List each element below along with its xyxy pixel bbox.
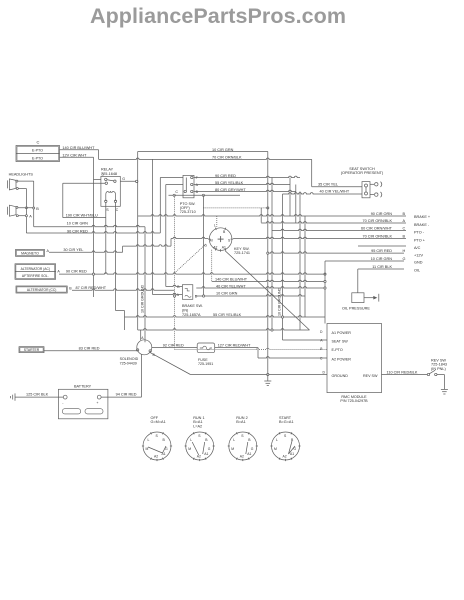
labels right column <box>414 215 431 273</box>
label RELAY 725-1648 <box>101 168 117 177</box>
svg-text:MAGNETO: MAGNETO <box>21 252 39 256</box>
svg-text:35 CIR YEL: 35 CIR YEL <box>318 183 338 187</box>
label 140 CIR BLU/WHT (brake) <box>215 277 248 281</box>
wire fuse to module A2 <box>215 348 327 358</box>
wire row4 label PTO+ <box>362 234 405 238</box>
svg-text:(OPERATOR PRESENT): (OPERATOR PRESENT) <box>341 171 384 175</box>
svg-text:BRAKE -: BRAKE - <box>414 223 430 227</box>
svg-text:87 CIR RED/WHT: 87 CIR RED/WHT <box>76 286 107 290</box>
svg-text:90 CIR RED: 90 CIR RED <box>66 270 87 274</box>
svg-text:110 CIR RED/BLK: 110 CIR RED/BLK <box>387 370 418 374</box>
wire pto F right <box>194 176 300 177</box>
wire 12V CIR WHT <box>60 157 101 297</box>
svg-text:94 CIR RED: 94 CIR RED <box>116 392 137 396</box>
headlight lamp 1 <box>8 179 19 190</box>
svg-text:M: M <box>231 447 234 451</box>
label 55 CIR YEL/BLK <box>215 181 244 185</box>
label 10 CIR GROUND rot <box>141 284 145 313</box>
pto switch 725-3710 <box>175 175 198 197</box>
label 35 CIR YEL <box>318 183 338 187</box>
wire battery pos <box>101 354 141 397</box>
wire key row <box>203 207 269 209</box>
wire row8 OIL 11 CIR BLK <box>358 265 404 269</box>
svg-text:10 CIR GRN: 10 CIR GRN <box>216 292 238 296</box>
wire vert 174 E-PTO <box>174 195 176 349</box>
svg-text:70 CIR ORN/BLK: 70 CIR ORN/BLK <box>362 234 392 238</box>
svg-text:A2: A2 <box>154 455 158 459</box>
svg-text:A1: A1 <box>290 452 294 456</box>
rmc module box <box>320 324 381 393</box>
wire vert 152 <box>152 159 154 294</box>
ignition position RUN 2 <box>228 416 258 461</box>
svg-text:11 CIR BLK: 11 CIR BLK <box>372 265 392 269</box>
wire headlight loop 190 CIR WHT/BLU <box>63 183 106 217</box>
svg-text:83 CIR RED: 83 CIR RED <box>79 346 100 350</box>
wire 90 CIR RED <box>26 232 160 233</box>
svg-text:725-1741: 725-1741 <box>234 251 250 255</box>
wire bus 70 CIR ORN/BLK <box>99 158 312 159</box>
wire key B right (row4) <box>233 237 406 238</box>
svg-text:M: M <box>146 447 149 451</box>
svg-text:140 CIR BLU/WHT: 140 CIR BLU/WHT <box>215 277 248 281</box>
ignition position OFF <box>142 416 172 461</box>
svg-text:P/N 725-04297B: P/N 725-04297B <box>340 399 368 403</box>
label 92 CIR RED <box>163 343 184 347</box>
label 90 CIR RED <box>67 229 88 233</box>
svg-text:HEADLIGHTS: HEADLIGHTS <box>9 172 34 176</box>
svg-text:PTO -: PTO - <box>414 231 425 235</box>
svg-text:L: L <box>214 223 216 227</box>
svg-text:G: G <box>122 177 125 181</box>
svg-text:E-PTO: E-PTO <box>332 348 343 352</box>
wire vert 203 <box>202 195 204 295</box>
connector C (E-PTO plug) <box>16 140 60 162</box>
svg-text:70 CIR ORN/BLK: 70 CIR ORN/BLK <box>212 156 242 160</box>
wire 140 row <box>212 280 326 283</box>
wire key G diagonal <box>175 244 207 273</box>
battery box <box>58 384 108 419</box>
wire vert 325 <box>324 261 326 324</box>
label 140 CIR BLU/WHT <box>62 146 95 150</box>
wire solenoid diag to ground rail <box>150 353 190 375</box>
alternator box <box>15 264 60 280</box>
svg-text:ALTERNATOR (CC): ALTERNATOR (CC) <box>27 288 57 292</box>
wire 40 CIR YEL/WHT <box>283 193 363 194</box>
svg-text:AFTERFIRE SOL.: AFTERFIRE SOL. <box>22 274 49 278</box>
wire row1 BRAKE+ 90 CIR ORN <box>138 212 406 216</box>
svg-text:127 CIR RED/WHT: 127 CIR RED/WHT <box>218 343 251 347</box>
wire 87 CIR RED/WHT <box>72 289 175 290</box>
wire vert 160 <box>159 178 161 234</box>
svg-text:A/C: A/C <box>414 246 421 250</box>
wire 10 row <box>173 295 305 298</box>
solenoid 725-04439 <box>136 336 155 357</box>
svg-text:SEAT SW: SEAT SW <box>332 340 349 344</box>
svg-text:95 CIR RED: 95 CIR RED <box>371 249 392 253</box>
svg-text:OIL PRESSURE: OIL PRESSURE <box>342 306 370 310</box>
svg-text:B=G=A1: B=G=A1 <box>279 420 294 424</box>
wire row5 A/C <box>358 245 406 247</box>
label 190 CIR WHT/BLU <box>66 213 98 217</box>
starter box <box>19 347 44 353</box>
label PTO SW. <box>180 202 196 214</box>
wire 40 row <box>196 287 326 290</box>
svg-text:A2: A2 <box>213 246 217 250</box>
svg-text:G: G <box>208 447 211 451</box>
wire key L up <box>216 216 218 227</box>
alternator cc box <box>16 286 72 293</box>
svg-text:A1: A1 <box>247 452 251 456</box>
svg-text:E-PTO: E-PTO <box>32 156 43 160</box>
wire vert 145 ground <box>144 227 146 343</box>
ground (battery) <box>10 393 15 400</box>
svg-text:GND: GND <box>414 261 423 265</box>
svg-text:BATTERY: BATTERY <box>74 384 92 388</box>
wire row6 +12V 95 CIR RED <box>267 249 406 254</box>
svg-text:L: L <box>148 438 150 442</box>
wire module to rev sw <box>382 374 428 376</box>
wire battery neg <box>15 396 63 398</box>
svg-text:L=A2: L=A2 <box>193 424 202 428</box>
svg-text:30 CIR YEL: 30 CIR YEL <box>63 248 83 252</box>
svg-text:RELAY: RELAY <box>101 168 114 172</box>
svg-text:A2: A2 <box>283 455 287 459</box>
label 80 CIR GRY/WHT <box>215 188 246 192</box>
wire 30 CIR YEL <box>49 237 208 252</box>
svg-text:725-1951: 725-1951 <box>198 362 213 366</box>
label HEADLIGHTS <box>9 172 34 176</box>
brake switch <box>177 285 198 300</box>
label 90 CIR RED (pto) <box>215 174 236 178</box>
svg-text:BRAKE SW.: BRAKE SW. <box>182 304 203 308</box>
svg-text:OIL: OIL <box>414 269 420 273</box>
svg-text:C: C <box>37 140 40 145</box>
wire vert 267 <box>267 152 269 375</box>
watermark AppliancePartsPros.com <box>90 4 346 28</box>
svg-text:125 CIR BLK: 125 CIR BLK <box>26 392 49 396</box>
svg-text:REV SW: REV SW <box>363 374 378 378</box>
svg-text:M: M <box>274 447 277 451</box>
label 70 CIR ORN/BLK (bus) <box>212 156 242 160</box>
magneto box <box>16 249 50 256</box>
wire module seat sw <box>283 339 328 341</box>
wire row7 GND 10 CIR GRN <box>325 257 406 261</box>
wire pto A left <box>166 184 183 186</box>
label 10 CIR GRN <box>67 222 89 226</box>
wire pto A right <box>194 183 290 184</box>
label OIL PRESSURE <box>342 306 370 310</box>
ignition position START <box>270 416 300 461</box>
ground (rev sw) <box>441 389 448 394</box>
wire key A1 diagonal <box>225 251 310 330</box>
label 10 CIR GRN (brake) <box>216 292 238 296</box>
label FUSE 725-1951 <box>198 358 213 366</box>
svg-text:725-3710: 725-3710 <box>180 210 196 214</box>
svg-text:E-PTO: E-PTO <box>32 148 43 152</box>
svg-text:STARTER: STARTER <box>24 348 40 352</box>
svg-text:B=A1: B=A1 <box>236 420 245 424</box>
svg-text:10 CIR GROUND: 10 CIR GROUND <box>278 287 282 316</box>
svg-text:A2 POWER: A2 POWER <box>332 358 352 362</box>
wire lamp1 to node A <box>18 188 26 190</box>
label SEAT SWITCH <box>341 167 384 175</box>
svg-text:H: H <box>403 249 406 253</box>
wire relay to node G <box>120 180 138 182</box>
svg-text:RMC MODULE: RMC MODULE <box>341 395 367 399</box>
svg-text:92 CIR RED: 92 CIR RED <box>163 343 184 347</box>
svg-text:190 CIR WHT/BLU: 190 CIR WHT/BLU <box>66 213 98 217</box>
label 10 CIR GROUND rot2 <box>278 287 282 316</box>
label 83 CIR RED <box>79 346 100 350</box>
wire 35 CIR YEL <box>312 186 362 188</box>
svg-text:A1 POWER: A1 POWER <box>332 331 352 335</box>
svg-text:L: L <box>233 438 235 442</box>
svg-text:10 CIR GRN: 10 CIR GRN <box>371 257 393 261</box>
svg-text:C: C <box>175 190 178 194</box>
wire rev sw to ground <box>437 375 444 390</box>
label 40 CIR YEL/WHT <box>320 190 350 194</box>
wire vert 295 <box>295 185 297 224</box>
wire vert 290 <box>289 178 291 217</box>
wire start row <box>138 329 310 341</box>
wire pto C row <box>169 194 241 196</box>
svg-text:KEY SW.: KEY SW. <box>234 247 250 251</box>
svg-text:GROUND: GROUND <box>332 374 349 378</box>
label KEY SW. 725-1741 <box>234 247 250 255</box>
svg-text:+12V: +12V <box>414 254 423 258</box>
label RMC MODULE P/N <box>340 395 368 403</box>
svg-text:M: M <box>188 447 191 451</box>
wire row2 BRAKE- 70 CIR ORN/BLK <box>261 219 406 223</box>
wire lamp1 to node B <box>18 180 34 182</box>
svg-text:70 CIR ORN/BLK: 70 CIR ORN/BLK <box>362 219 392 223</box>
wire module ground <box>190 373 327 375</box>
svg-text:D: D <box>195 295 198 299</box>
node A <box>25 189 32 234</box>
wire brake B <box>166 285 183 286</box>
oil pressure switch <box>352 293 379 303</box>
fuse 725-1951 <box>197 343 215 353</box>
svg-text:A1: A1 <box>204 452 208 456</box>
svg-text:SEAT SWITCH: SEAT SWITCH <box>349 167 375 171</box>
label BRAKE SW. <box>182 304 203 317</box>
svg-text:60 CIR ORN/WHT: 60 CIR ORN/WHT <box>361 226 393 230</box>
label 40 CIR YEL/WHT (brake) <box>216 284 246 288</box>
svg-text:A2: A2 <box>197 455 201 459</box>
key switch 725-1741 <box>204 223 233 251</box>
svg-text:140 CIR BLU/WHT: 140 CIR BLU/WHT <box>62 146 95 150</box>
wire module e-pto <box>175 348 328 349</box>
label 30 CIR YEL <box>63 248 83 252</box>
svg-text:(IN PNL): (IN PNL) <box>431 367 447 371</box>
wire 55 row <box>125 316 326 319</box>
wire 10 CIR GRN <box>34 225 145 226</box>
svg-text:PTO +: PTO + <box>414 239 426 243</box>
wire 90 CIR RED (alt) <box>59 273 326 276</box>
svg-text:C: C <box>403 226 406 230</box>
wire vert 305 <box>304 216 306 317</box>
wire relay C down <box>116 203 125 331</box>
label 94 CIR RED <box>116 392 137 396</box>
svg-text:10 CIR GROUND: 10 CIR GROUND <box>141 284 145 313</box>
svg-text:L: L <box>190 438 192 442</box>
wire vert 272 <box>271 178 273 331</box>
wire solenoid to fuse <box>152 347 197 349</box>
wire brake A <box>153 293 183 294</box>
label 55 CIR YEL/BLK (low) <box>213 313 242 317</box>
svg-text:10 CIR GRN: 10 CIR GRN <box>67 222 89 226</box>
wire relay S down <box>105 203 107 275</box>
label SOLENOID 725-04439 <box>120 357 139 365</box>
svg-text:G: G <box>403 257 406 261</box>
svg-text:G: G <box>251 447 254 451</box>
label 10 CIR GRN (bus) <box>212 148 234 152</box>
label 12V CIR WHT <box>62 154 87 158</box>
wire pto B right <box>194 190 296 191</box>
svg-text:A2: A2 <box>240 455 244 459</box>
ground (module) <box>264 375 271 386</box>
wire vert 311 <box>311 159 313 186</box>
svg-text:G=M=A1: G=M=A1 <box>151 420 166 424</box>
wire vert 282 <box>282 194 284 340</box>
label REV SW 725-1843 <box>431 358 447 370</box>
label 87 CIR RED/WHT <box>76 286 107 290</box>
svg-text:725-1657A: 725-1657A <box>182 313 201 317</box>
svg-text:90 CIR ORN: 90 CIR ORN <box>371 212 393 216</box>
svg-text:AppliancePartsPros.com: AppliancePartsPros.com <box>90 4 346 28</box>
wire lamp2 to node B <box>18 207 34 209</box>
rev switch <box>427 370 437 375</box>
wire starter to solenoid <box>44 350 137 352</box>
label 110 CIR RED/BLK <box>387 370 418 374</box>
wire lamp2 to node A <box>18 215 26 217</box>
wire vert 261 <box>260 208 262 223</box>
label 127 CIR RED/WHT <box>218 343 251 347</box>
svg-text:+: + <box>96 401 98 405</box>
wire vert 137 <box>137 152 139 331</box>
svg-text:(IN): (IN) <box>182 308 189 312</box>
ignition position RUN 1 <box>185 416 215 461</box>
seat switch <box>362 182 382 198</box>
svg-text:L: L <box>276 438 278 442</box>
wire bus 10 CIR GRN <box>138 151 268 153</box>
wire oil pressure drop <box>357 269 359 293</box>
wire vert 300 <box>299 192 301 331</box>
wire row3 PTO- 60 CIR ORN/WHT <box>272 226 406 230</box>
wire key A2 drop <box>211 250 213 282</box>
svg-text:C: C <box>116 208 119 212</box>
svg-text:55 CIR YEL/BLK: 55 CIR YEL/BLK <box>213 313 242 317</box>
label 125 CIR BLK <box>26 392 49 396</box>
svg-text:40 CIR YEL/WHT: 40 CIR YEL/WHT <box>320 190 350 194</box>
svg-text:BRAKE +: BRAKE + <box>414 215 431 219</box>
relay 725-1648 <box>101 172 125 211</box>
wire pto F left <box>160 177 183 179</box>
svg-text:725-04439: 725-04439 <box>120 361 137 365</box>
wire vert 165 <box>165 185 167 287</box>
svg-text:ALTERNATOR (AC): ALTERNATOR (AC) <box>21 267 50 271</box>
node B <box>33 181 40 227</box>
wire 140 CIR BLU/WHT <box>60 150 99 160</box>
label 90 CIR RED (alt) <box>66 270 87 274</box>
headlight lamp 2 <box>8 205 19 217</box>
svg-text:D: D <box>102 172 105 176</box>
